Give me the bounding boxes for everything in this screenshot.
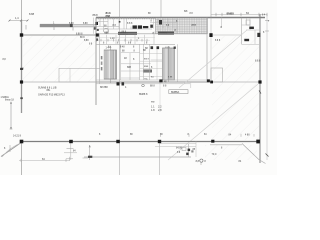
svg-text:8,88 8: 8,88 8: [76, 34, 83, 36]
svg-text:8.88: 8.88: [29, 12, 35, 16]
svg-text:70,0: 70,0: [212, 153, 217, 156]
svg-text:1 M8DA: 1 M8DA: [1, 96, 10, 99]
svg-text:1,4: 1,4: [15, 16, 19, 20]
svg-text:2.8: 2.8: [158, 108, 162, 112]
svg-text:88 8: 88 8: [150, 85, 155, 88]
svg-text:88t 8: 88t 8: [144, 58, 150, 61]
svg-text:SUNAB 8.8 L.LIB: SUNAB 8.8 L.LIB: [38, 86, 57, 89]
svg-text:8,88: 8,88: [84, 40, 89, 42]
svg-text:8M88 8: 8M88 8: [139, 93, 148, 96]
svg-text:888: 888: [105, 32, 110, 35]
svg-text:ww: ww: [151, 101, 155, 104]
svg-text:8T8: 8T8: [192, 23, 197, 27]
svg-text:1.8: 1.8: [151, 108, 155, 112]
svg-text:8.88: 8.88: [83, 23, 88, 25]
svg-text:GARAGE P13 M823 P13: GARAGE P13 M823 P13: [38, 94, 65, 97]
svg-text:8M88: 8M88: [227, 11, 235, 15]
svg-text:1,48: 1,48: [110, 38, 115, 40]
svg-text:8.88: 8.88: [69, 23, 74, 25]
svg-text:84,88: 84,88: [176, 147, 183, 150]
svg-text:888: 888: [127, 66, 132, 69]
svg-text:88 8: 88 8: [122, 32, 127, 34]
svg-text:8M88A: 8M88A: [171, 90, 179, 94]
svg-text:88.8: 88.8: [93, 13, 99, 17]
svg-text:14,21 8: 14,21 8: [13, 135, 22, 138]
svg-text:8.8.8: 8.8.8: [255, 60, 261, 63]
svg-text:8w: 8w: [151, 77, 154, 79]
svg-text:88 8: 88 8: [80, 37, 85, 39]
svg-text:8 8 8: 8 8 8: [127, 22, 133, 25]
svg-text:88 888: 88 888: [100, 86, 108, 89]
svg-text:8 48: 8 48: [120, 47, 125, 49]
svg-text:8max 18: 8max 18: [5, 100, 15, 102]
svg-text:8 8 8: 8 8 8: [215, 40, 221, 42]
svg-text:4 88: 4 88: [245, 135, 250, 137]
svg-text:888: 888: [106, 14, 111, 18]
